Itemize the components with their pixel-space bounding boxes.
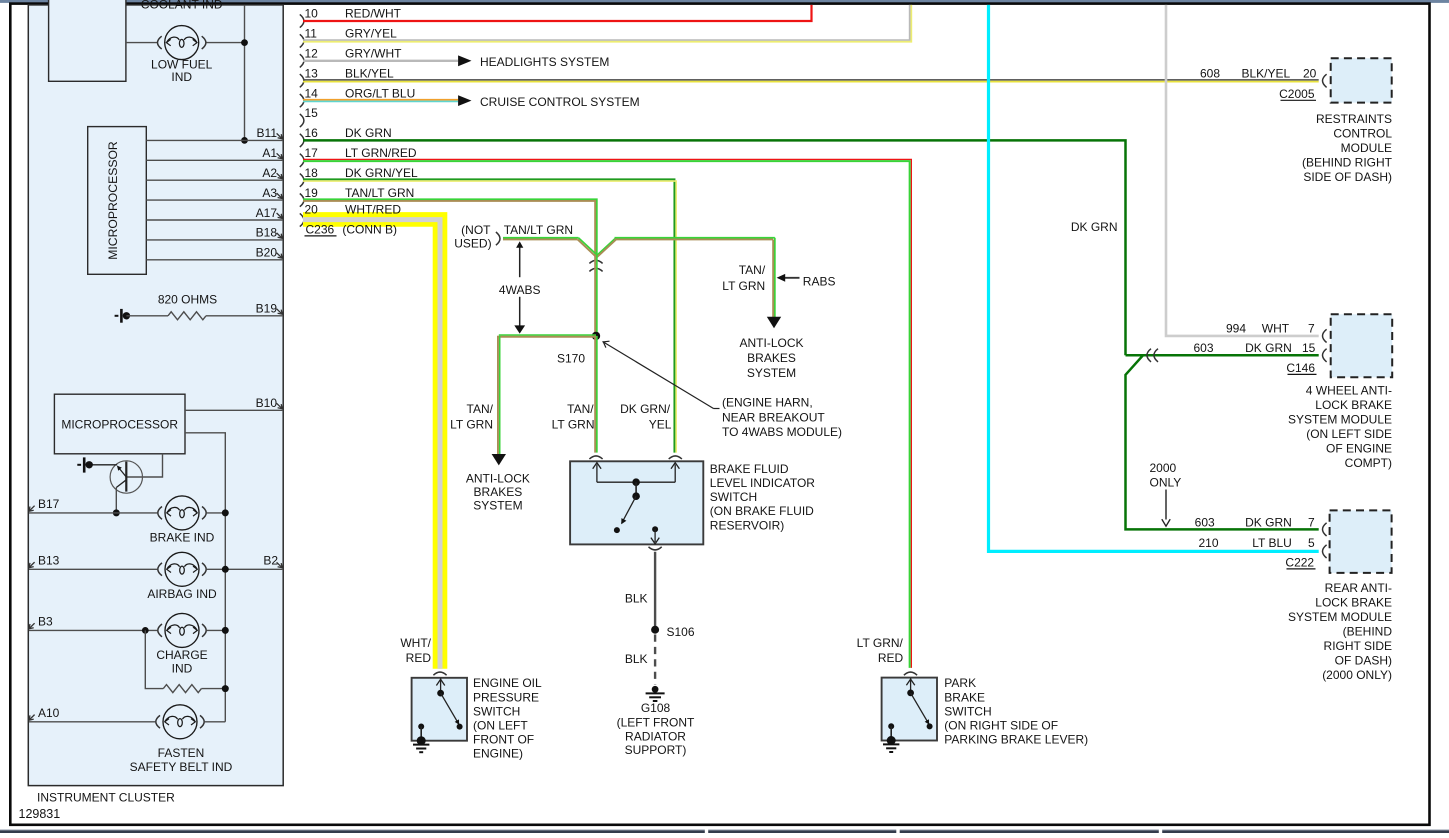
svg-text:16: 16 [305, 126, 319, 140]
svg-text:(BEHIND: (BEHIND [1343, 625, 1393, 639]
svg-text:C146: C146 [1286, 361, 1315, 375]
svg-text:608: 608 [1200, 67, 1220, 81]
svg-text:A3: A3 [262, 186, 277, 200]
svg-text:(CONN B): (CONN B) [342, 222, 397, 236]
svg-text:IND: IND [172, 661, 193, 675]
svg-text:IND: IND [171, 70, 192, 84]
svg-text:WHT/: WHT/ [400, 636, 431, 650]
svg-text:COMPT): COMPT) [1345, 456, 1392, 470]
connector arcs into brake fluid switch [589, 456, 602, 459]
wire 14 ORG/LT BLU to cruise control system [303, 99, 458, 101]
wire S170 branch to anti-lock brakes system (left) [499, 334, 596, 336]
C236 pin 15 [300, 114, 304, 127]
svg-text:SYSTEM MODULE: SYSTEM MODULE [1288, 413, 1392, 427]
wire BLK dashed to ground [654, 635, 656, 685]
svg-text:MICROPROCESSOR: MICROPROCESSOR [106, 141, 120, 260]
svg-text:G108: G108 [641, 701, 671, 715]
svg-text:SWITCH: SWITCH [710, 490, 757, 504]
node charge resistor tap [142, 627, 149, 634]
wire lamp to node, vertical feed [206, 42, 244, 44]
wire A2 from microprocessor to C236 [146, 179, 283, 181]
wire from not-used connector [503, 237, 578, 239]
wire 18 DK GRN/YEL to brake fluid switch [303, 179, 674, 452]
svg-text:B13: B13 [38, 554, 60, 568]
4 wheel anti-lock brake system module box [1331, 314, 1393, 377]
svg-text:DK GRN: DK GRN [1245, 341, 1292, 355]
svg-text:C2005: C2005 [1279, 87, 1315, 101]
wire B17 [29, 512, 157, 514]
svg-text:RADIATOR: RADIATOR [625, 729, 686, 743]
svg-text:B20: B20 [256, 246, 278, 260]
C236 pin 19 [300, 194, 304, 207]
svg-text:AIRBAG IND: AIRBAG IND [147, 587, 217, 601]
svg-text:S106: S106 [667, 625, 695, 639]
svg-text:DK GRN/: DK GRN/ [620, 402, 671, 416]
lamp CHARGE IND [165, 613, 199, 647]
svg-text:LOCK BRAKE: LOCK BRAKE [1315, 398, 1392, 412]
wire A1 from microprocessor to C236 [146, 159, 283, 161]
svg-text:17: 17 [305, 146, 319, 160]
svg-text:PARK: PARK [944, 676, 976, 690]
svg-text:(LEFT FRONT: (LEFT FRONT [617, 715, 695, 729]
svg-text:ENGINE OIL: ENGINE OIL [473, 676, 542, 690]
coolant indicator box [49, 0, 126, 81]
node brake ind / bus [222, 509, 229, 516]
svg-text:B17: B17 [38, 497, 60, 511]
svg-text:LT GRN: LT GRN [722, 279, 765, 293]
svg-text:SIDE OF DASH): SIDE OF DASH) [1303, 170, 1392, 184]
svg-text:SYSTEM: SYSTEM [473, 498, 522, 512]
wire A10 [29, 721, 155, 723]
svg-text:5: 5 [1308, 536, 1315, 550]
svg-text:B10: B10 [256, 396, 278, 410]
transistor Q1 [110, 461, 142, 493]
resistor 820 OHMS [126, 315, 168, 317]
wire cyan LT BLU vertical to C222 [989, 5, 1319, 552]
node emitter junction on B17 wire [113, 509, 120, 516]
wire B11 from microprocessor to C236 [146, 139, 283, 141]
lamp AIRBAG IND [165, 552, 199, 586]
svg-text:(NOT: (NOT [461, 223, 491, 237]
svg-text:(2000 ONLY): (2000 ONLY) [1322, 668, 1392, 682]
rear anti-lock brake system module box [1330, 510, 1392, 573]
ground G108 [652, 686, 659, 693]
C236 pin 16 [300, 134, 304, 147]
microprocessor U2 [54, 394, 185, 454]
svg-text:ORG/LT BLU: ORG/LT BLU [345, 86, 415, 100]
C236 pin 20 [300, 213, 304, 226]
svg-text:14: 14 [305, 86, 319, 100]
svg-text:603: 603 [1193, 341, 1213, 355]
svg-text:19: 19 [305, 186, 319, 200]
lamp FASTEN SAFETY BELT IND [163, 705, 197, 739]
svg-text:2000: 2000 [1150, 461, 1177, 475]
svg-text:(ENGINE HARN,: (ENGINE HARN, [722, 396, 813, 410]
svg-text:TO 4WABS MODULE): TO 4WABS MODULE) [722, 425, 842, 439]
svg-text:NEAR BREAKOUT: NEAR BREAKOUT [722, 411, 825, 425]
resistor below charge ind [145, 630, 163, 688]
wire A17 from microprocessor to C236 [146, 219, 283, 221]
wire branch to RABS [596, 239, 615, 256]
lamp BRAKE IND [165, 496, 199, 530]
wire coolant box to low fuel lamp [126, 42, 157, 44]
RABS pointer [781, 277, 800, 279]
wire 19 TAN/LT GRN [303, 199, 597, 256]
svg-text:MODULE: MODULE [1341, 141, 1392, 155]
svg-text:210: 210 [1198, 536, 1218, 550]
svg-text:PRESSURE: PRESSURE [473, 690, 539, 704]
svg-text:MICROPROCESSOR: MICROPROCESSOR [61, 418, 178, 432]
svg-text:20: 20 [305, 203, 319, 217]
engine oil pressure switch [412, 678, 467, 741]
svg-text:GRY/YEL: GRY/YEL [345, 27, 397, 41]
svg-text:994: 994 [1226, 322, 1246, 336]
wire B13 to B2 [29, 568, 157, 570]
arrow to anti-lock brakes system (right) [767, 317, 781, 328]
svg-text:SUPPORT): SUPPORT) [625, 743, 687, 757]
svg-text:7: 7 [1308, 322, 1315, 336]
wire DK GRN jog down to C222 [1126, 355, 1319, 529]
svg-text:TAN/LT GRN: TAN/LT GRN [345, 186, 414, 200]
svg-text:BLK: BLK [625, 652, 648, 666]
svg-text:13: 13 [305, 66, 319, 80]
connector arc into park brake switch [904, 672, 917, 675]
svg-text:OF DASH): OF DASH) [1335, 654, 1392, 668]
svg-text:B11: B11 [257, 126, 278, 140]
C236 pin 14 [300, 94, 304, 107]
svg-text:820 OHMS: 820 OHMS [158, 293, 217, 307]
connector arc into oil pressure switch [433, 672, 446, 675]
svg-text:DK GRN: DK GRN [1245, 516, 1292, 530]
svg-text:C222: C222 [1285, 556, 1314, 570]
wire 10 RED/WHT [303, 5, 812, 21]
svg-text:HEADLIGHTS SYSTEM: HEADLIGHTS SYSTEM [480, 55, 609, 69]
splice S106 [651, 626, 659, 634]
svg-text:SAFETY BELT IND: SAFETY BELT IND [130, 760, 233, 774]
svg-text:BLK: BLK [625, 592, 648, 606]
svg-text:TAN/: TAN/ [739, 263, 766, 277]
wire base of Q1 to capacitor [89, 464, 117, 466]
node at low fuel lamp output [241, 39, 248, 46]
svg-text:TAN/LT GRN: TAN/LT GRN [504, 223, 573, 237]
svg-text:(ON LEFT: (ON LEFT [473, 719, 528, 733]
svg-text:RED: RED [406, 651, 432, 665]
wire DK GRN branch to C146 with inline connector [1126, 354, 1319, 357]
svg-text:WHT: WHT [1262, 322, 1290, 336]
park brake switch [882, 678, 937, 741]
wire B10 [185, 409, 283, 411]
svg-text:FRONT OF: FRONT OF [473, 733, 534, 747]
svg-text:RED/WHT: RED/WHT [345, 7, 402, 21]
svg-text:LOCK BRAKE: LOCK BRAKE [1315, 596, 1392, 610]
svg-text:B3: B3 [38, 615, 53, 629]
lamp LOW FUEL IND [165, 26, 199, 60]
svg-text:PARKING BRAKE LEVER): PARKING BRAKE LEVER) [944, 733, 1088, 747]
splice S170 [592, 332, 600, 340]
brake fluid level indicator switch [570, 461, 703, 544]
svg-text:LT GRN: LT GRN [552, 417, 595, 431]
svg-text:129831: 129831 [19, 807, 61, 821]
svg-text:RIGHT SIDE: RIGHT SIDE [1324, 639, 1392, 653]
svg-text:A17: A17 [256, 206, 278, 220]
node resistor / bus [222, 685, 229, 692]
svg-text:REAR ANTI-: REAR ANTI- [1325, 581, 1392, 595]
svg-text:DK GRN/YEL: DK GRN/YEL [345, 166, 418, 180]
svg-text:WHT/RED: WHT/RED [345, 203, 401, 217]
node on B11 wire [241, 137, 248, 144]
inline connector on tan/lt grn wire [589, 260, 602, 263]
svg-text:DK GRN: DK GRN [345, 126, 392, 140]
svg-text:B18: B18 [256, 226, 278, 240]
wire B18 from microprocessor to C236 [146, 239, 283, 241]
svg-text:7: 7 [1308, 516, 1315, 530]
svg-text:BRAKES: BRAKES [747, 351, 796, 365]
microprocessor U1 [88, 127, 147, 275]
svg-text:INSTRUMENT CLUSTER: INSTRUMENT CLUSTER [37, 791, 175, 805]
svg-text:OF ENGINE: OF ENGINE [1326, 442, 1392, 456]
C236 pin 10 [300, 14, 304, 27]
svg-text:CHARGE: CHARGE [156, 648, 207, 662]
svg-text:20: 20 [1303, 67, 1317, 81]
svg-text:RESERVOIR): RESERVOIR) [710, 518, 784, 532]
wire emitter of Q1 to B17 [115, 488, 117, 513]
svg-text:ONLY: ONLY [1150, 476, 1182, 490]
wire BLK to S106 [654, 552, 656, 630]
svg-text:(ON RIGHT SIDE OF: (ON RIGHT SIDE OF [944, 719, 1058, 733]
svg-text:C236: C236 [306, 222, 335, 236]
wire 17 LT GRN/RED to park brake switch [303, 159, 911, 667]
wire 20 WHT/RED highlighted [303, 219, 440, 668]
instrument cluster box [28, 5, 283, 786]
wire microprocessor to indicator bus [185, 433, 225, 722]
wire 13 BLK/YEL to C2005 [303, 79, 1319, 81]
wire fasten lamp to bus [205, 721, 226, 723]
svg-text:A10: A10 [38, 706, 60, 720]
svg-text:BRAKES: BRAKES [474, 485, 523, 499]
svg-text:BLK/YEL: BLK/YEL [1241, 67, 1290, 81]
svg-text:LT GRN/: LT GRN/ [857, 636, 904, 650]
svg-text:TAN/: TAN/ [567, 402, 594, 416]
svg-text:RABS: RABS [803, 274, 836, 288]
svg-text:BRAKE IND: BRAKE IND [150, 531, 215, 545]
svg-text:FASTEN: FASTEN [158, 746, 205, 760]
svg-text:CONTROL: CONTROL [1333, 127, 1392, 141]
node airbag ind / bus [222, 566, 229, 573]
svg-text:BLK/YEL: BLK/YEL [345, 66, 394, 80]
svg-text:(ON BRAKE FLUID: (ON BRAKE FLUID [710, 504, 814, 518]
wire tan/lt grn continues to S170 [596, 255, 598, 336]
wire A3 from microprocessor to C236 [146, 199, 283, 201]
connector arc below brake fluid switch [649, 547, 662, 550]
svg-text:SYSTEM MODULE: SYSTEM MODULE [1288, 610, 1392, 624]
node charge ind / bus [222, 627, 229, 634]
engine harn callout pointer [603, 342, 714, 409]
svg-text:LT GRN/RED: LT GRN/RED [345, 146, 417, 160]
svg-text:LEVEL INDICATOR: LEVEL INDICATOR [710, 476, 815, 490]
capacitor symbol at 820 ohm resistor [115, 315, 119, 317]
wire 16 DK GRN [303, 140, 1126, 355]
svg-text:RED: RED [878, 651, 904, 665]
svg-text:ANTI-LOCK: ANTI-LOCK [466, 471, 530, 485]
svg-text:603: 603 [1195, 516, 1215, 530]
wire B19 [206, 315, 283, 317]
restraints control module box [1331, 58, 1392, 102]
svg-text:4WABS: 4WABS [499, 283, 541, 297]
wire 11 GRY/YEL [303, 5, 910, 40]
svg-text:CRUISE CONTROL SYSTEM: CRUISE CONTROL SYSTEM [480, 95, 640, 109]
svg-text:COOLANT IND: COOLANT IND [141, 0, 223, 11]
svg-text:LT GRN: LT GRN [450, 417, 493, 431]
svg-text:BRAKE: BRAKE [944, 690, 985, 704]
svg-text:15: 15 [305, 106, 319, 120]
wire WHT vertical to C146 [1166, 5, 1319, 336]
svg-text:18: 18 [305, 166, 319, 180]
svg-text:RESTRAINTS: RESTRAINTS [1316, 112, 1392, 126]
4WABS span arrow [519, 244, 521, 278]
svg-text:LT BLU: LT BLU [1252, 536, 1292, 550]
svg-text:SWITCH: SWITCH [473, 704, 520, 718]
wire collector of Q1 to microprocessor [127, 454, 163, 477]
wire S170 down to brake fluid switch [596, 336, 598, 453]
wire 12 GRY/WHT to headlights system [303, 60, 458, 62]
svg-text:B2: B2 [263, 554, 278, 568]
svg-text:SWITCH: SWITCH [944, 704, 991, 718]
svg-text:12: 12 [305, 47, 319, 61]
svg-text:ANTI-LOCK: ANTI-LOCK [739, 336, 803, 350]
C236 pin 13 [300, 74, 304, 87]
svg-text:10: 10 [305, 7, 319, 21]
svg-text:DK GRN: DK GRN [1071, 220, 1118, 234]
capacitor symbol at Q1 base [77, 464, 81, 466]
C236 pin 12 [300, 54, 304, 67]
svg-text:USED): USED) [454, 237, 491, 251]
svg-text:A2: A2 [262, 166, 277, 180]
svg-text:TAN/: TAN/ [467, 402, 494, 416]
svg-text:11: 11 [305, 27, 318, 41]
svg-text:S170: S170 [557, 352, 585, 366]
svg-text:(ON LEFT SIDE: (ON LEFT SIDE [1306, 427, 1392, 441]
svg-text:SYSTEM: SYSTEM [747, 366, 796, 380]
C236 pin 17 [300, 154, 304, 167]
svg-text:ENGINE): ENGINE) [473, 747, 523, 761]
svg-text:B19: B19 [256, 301, 278, 315]
svg-text:15: 15 [1302, 341, 1316, 355]
C236 pin 18 [300, 174, 304, 187]
wire brake lamp to bus [207, 512, 226, 514]
wire B3 [29, 629, 157, 631]
C236 pin 11 [300, 34, 304, 47]
svg-text:A1: A1 [262, 146, 277, 160]
svg-text:4 WHEEL ANTI-: 4 WHEEL ANTI- [1306, 384, 1392, 398]
svg-text:YEL: YEL [649, 417, 672, 431]
svg-text:BRAKE FLUID: BRAKE FLUID [710, 462, 789, 476]
svg-text:(BEHIND RIGHT: (BEHIND RIGHT [1302, 156, 1393, 170]
wire B20 from microprocessor to C236 [146, 259, 283, 261]
svg-text:GRY/WHT: GRY/WHT [345, 47, 402, 61]
